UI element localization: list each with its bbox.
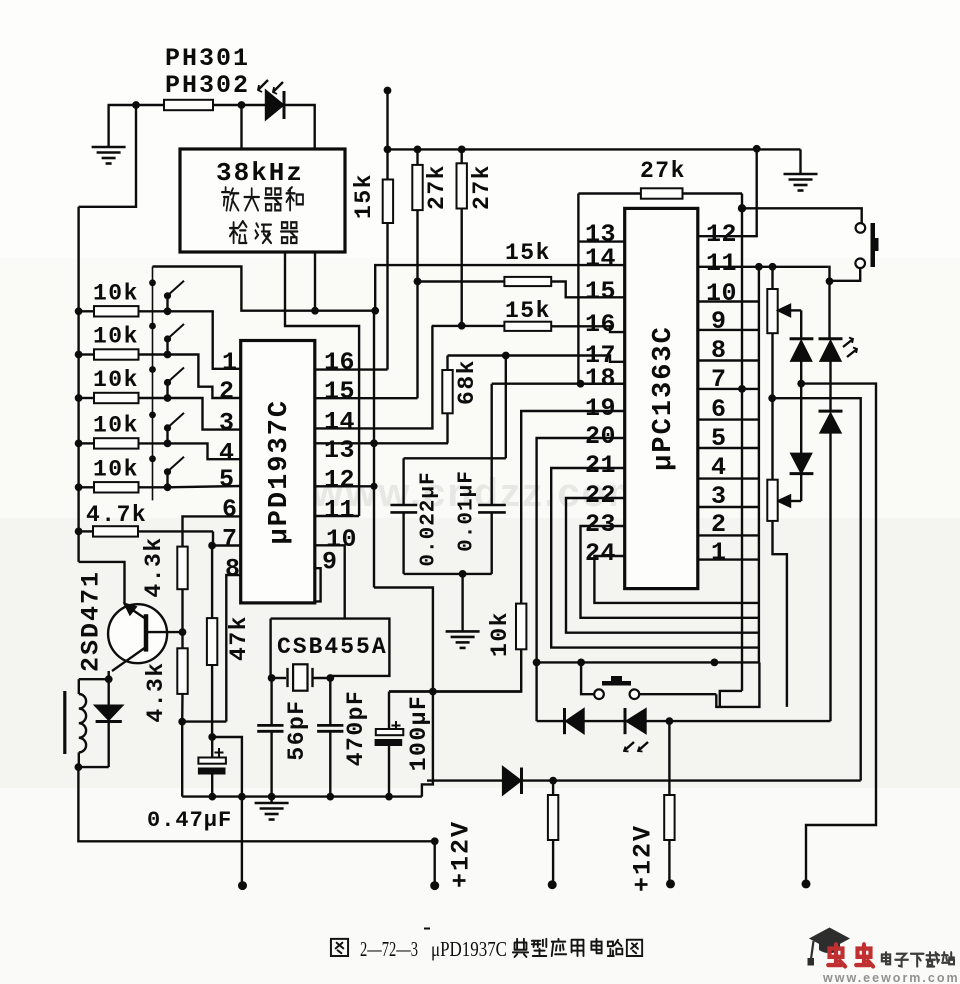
svg-text:2: 2 (219, 377, 235, 406)
wire U2 pin3 stub (698, 506, 759, 508)
wire bottom row (427, 779, 861, 781)
wire to pushbutton SW-P1 (742, 208, 862, 223)
block 38kHz amplifier-detector box (180, 149, 345, 252)
node terminal +12V-3 (666, 879, 675, 888)
wire base node to 47k? (182, 720, 226, 722)
inductor T1 core bar (63, 691, 66, 754)
svg-text:5: 5 (219, 465, 235, 494)
resistor R-LED (668, 721, 670, 795)
resistor 4.7k (79, 530, 93, 532)
wire U2 pin5 stub (698, 447, 759, 449)
wire U1 pin10 drop (315, 545, 345, 618)
node coil bottom junction (75, 763, 83, 771)
wire CSB left top (269, 619, 271, 678)
pushbutton SW-P1 contacts (856, 223, 866, 233)
transistor Q1 collector arrow (125, 604, 136, 614)
pushbutton SW-P1 plunger (871, 223, 876, 267)
wire A2 down to box (240, 105, 242, 149)
wire left rail (77, 207, 79, 562)
svg-text:21: 21 (585, 451, 616, 480)
pushbutton SW-P2 plunger (602, 681, 631, 686)
wire 15k upper to pin15 (418, 280, 505, 282)
wire U2 pin22 wrap (566, 498, 759, 633)
transistor Q1 collector diagonal (125, 605, 147, 620)
node D-A junction (797, 380, 805, 388)
switch S2 arm (166, 342, 168, 355)
svg-text:47k: 47k (226, 615, 252, 661)
node emitter junction (105, 675, 113, 683)
svg-text:470pF: 470pF (343, 690, 369, 767)
svg-text:3: 3 (219, 409, 235, 438)
svg-text:15: 15 (324, 377, 355, 406)
wire 38kHz box output right (285, 252, 359, 516)
resistor 4.3k lower (181, 632, 183, 648)
wire LED string left drop (535, 662, 537, 721)
label hanzi jian-bo-qi (230, 221, 247, 243)
svg-text:100μF: 100μF (406, 695, 432, 772)
svg-text:6: 6 (222, 495, 238, 524)
wire bottom rail CSB (182, 795, 422, 797)
svg-text:18: 18 (585, 364, 616, 393)
wire rail jog up (422, 692, 433, 797)
svg-text:15k: 15k (505, 240, 551, 266)
switch S3 arm (166, 385, 168, 398)
node LED string +12V junction (666, 717, 674, 725)
wire right branch far (801, 384, 876, 884)
node common row junction3 (711, 659, 719, 667)
transistor Q1 emitter diagonal (112, 647, 146, 671)
node rail dot bypass (238, 793, 246, 801)
node common row junction2 (577, 659, 585, 667)
node pin12 junction (370, 483, 377, 490)
diode D-F down-pointing (107, 679, 109, 706)
wire U2 pin1 stub (698, 558, 759, 560)
node gang bus dot row2 (149, 323, 156, 330)
wire pin6 via 4.3k (183, 516, 241, 546)
svg-text:1: 1 (222, 348, 238, 377)
wire center bus to long vertical (374, 588, 433, 692)
resistor 68k (446, 356, 448, 371)
wire U1 pin11 stub (315, 515, 359, 517)
resistor 27k top (578, 192, 641, 194)
svg-text:2—72—3: 2—72—3 (360, 937, 418, 961)
node long-vertical 100u junction (429, 688, 437, 696)
transistor Q1 2SD471 circle (108, 604, 167, 663)
wire switch common top (153, 267, 376, 311)
node gang bus dot row3 (149, 366, 156, 373)
wire 27k to pushbutton node (741, 194, 743, 209)
potentiometer VR2 wiper arrow (779, 496, 791, 507)
wire 27k2 down (461, 209, 463, 326)
potentiometer VR1 wiper arrow (779, 305, 791, 316)
node pin11 bus junction (755, 263, 763, 271)
wire SW-P1 to LED column (830, 268, 861, 281)
node terminal +12V-2 (548, 880, 557, 889)
switch gang bus vertical (152, 267, 154, 501)
svg-text:4.3k: 4.3k (141, 536, 167, 597)
svg-text:0.47μF: 0.47μF (147, 808, 232, 833)
node rail dot 470p (326, 793, 334, 801)
wire G1 stem (107, 105, 109, 148)
wire common row (537, 661, 760, 663)
wire LED1 column upper (828, 281, 830, 338)
node diamond junction (738, 204, 746, 212)
svg-text:10: 10 (706, 279, 737, 308)
svg-text:27k: 27k (469, 164, 495, 210)
wire U1 pin16 to 15k (315, 368, 388, 370)
node button-LED junction (826, 277, 834, 285)
wire D-B to VR2 wiper (800, 474, 802, 501)
wire left bottom rail (78, 767, 434, 841)
svg-text:27k: 27k (424, 164, 450, 210)
wire LED string seg2 (584, 720, 626, 722)
wire 38kHz box output left (314, 252, 316, 311)
wire SW-P2 left lead (581, 662, 594, 694)
svg-text:12: 12 (324, 466, 355, 495)
IC U2 uPC1363C box (625, 208, 698, 588)
resistor 10k row2 (79, 353, 94, 355)
resistor 15k lower (504, 322, 551, 331)
wire 4.3k2 to rail (181, 722, 183, 797)
resistor 10k row3 (79, 397, 94, 399)
wire 100uF top line (389, 690, 521, 692)
wire U1 pin9 stub (315, 568, 321, 601)
resistor 15k upper (504, 277, 551, 286)
svg-text:12: 12 (706, 220, 737, 249)
ground G4 mid (461, 574, 463, 632)
logo chongchong red (828, 944, 845, 966)
resistor 10k row4 (79, 442, 94, 444)
wire U2 pin7 stub (698, 388, 759, 390)
wire coil bottom (78, 752, 80, 767)
logo dianzixiazaizhan (882, 952, 890, 964)
diode D-B down-pointing (792, 454, 811, 473)
wire 15k to pin16 (386, 223, 388, 370)
node common row junction1 (533, 659, 541, 667)
node common-line split junction (371, 307, 379, 315)
svg-text:10k: 10k (487, 611, 513, 657)
wire long vertical bottom jog (720, 691, 742, 707)
ground G3 bottom (270, 797, 272, 803)
wire U2 pin2 stub (698, 534, 759, 536)
svg-text:23: 23 (585, 510, 616, 539)
pushbutton SW-P2 contacts (594, 689, 604, 699)
diode D-E right-pointing (503, 768, 520, 795)
svg-text:10k: 10k (93, 324, 139, 350)
resistor 27k column2 (461, 149, 463, 163)
wire 4.3k to base node (181, 589, 183, 632)
node 47k bottom junction (208, 733, 216, 741)
node left rail junction row2 (75, 351, 83, 359)
wire LED1 to D-C (829, 361, 831, 411)
node junction A1 (132, 101, 140, 109)
resistor 10k pin19 (516, 604, 526, 650)
wire U2 pin21 wrap (551, 468, 759, 648)
node VR junction mid (768, 394, 776, 402)
wire U2 pin10 stub (698, 300, 759, 302)
svg-text:10k: 10k (93, 367, 139, 393)
node rail dot 47k (208, 793, 216, 801)
wire diode to coil node (78, 766, 108, 768)
wire U2 pin11 line (698, 266, 829, 268)
wire cap frame top (404, 457, 506, 459)
wire 68k-top line to pin17 (448, 356, 625, 362)
wire common to uPC1363C pin14 (375, 265, 625, 311)
wire U1 pin12 stub (315, 485, 374, 487)
svg-text:0.01μF: 0.01μF (456, 470, 479, 552)
node terminal bypass (238, 881, 247, 890)
svg-text:56pF: 56pF (284, 699, 310, 760)
wire right pin bus (758, 267, 760, 663)
wire A1 down to rail (79, 105, 136, 207)
resistor R-PH (series) (164, 100, 213, 110)
wire 27k1 down (416, 210, 418, 398)
wire LED string seg1 (537, 720, 565, 722)
node pin13 junction (370, 439, 378, 447)
svg-text:38kHz: 38kHz (216, 158, 304, 188)
node 27k2 to 15k-lower junction (458, 322, 466, 330)
capacitor C6 0.47uF electrolytic (198, 758, 226, 764)
node terminal +12V-1 (430, 881, 439, 890)
svg-text:27k: 27k (640, 158, 686, 184)
wire U1 pin15 to 27k1 (315, 397, 418, 399)
svg-text:4.7k: 4.7k (86, 502, 147, 528)
wire U2 pin9 stub (698, 329, 759, 331)
node bottom row junction (549, 777, 557, 785)
svg-text:10k: 10k (93, 456, 139, 482)
svg-text:PH302: PH302 (165, 71, 250, 100)
wire U2 pin8 stub (698, 359, 759, 361)
resistor 4.3k upper (177, 547, 187, 590)
svg-text:www.eeworm.com: www.eeworm.com (822, 971, 960, 984)
svg-text:0.022μF: 0.022μF (418, 471, 441, 566)
svg-text:CSB455A: CSB455A (277, 634, 388, 660)
wire LED string seg3 (646, 720, 831, 722)
capacitor C3 56pF (270, 678, 272, 725)
LED LED1 emission arrows (843, 339, 853, 347)
inductor T1 coil (79, 694, 86, 752)
wire U2 pin24 wrap (594, 556, 759, 603)
svg-text:4.3k: 4.3k (143, 661, 169, 722)
node pin11 pot junction (769, 263, 777, 271)
svg-text:μPD1937C: μPD1937C (265, 399, 295, 545)
potentiometer VR1 (771, 267, 773, 289)
potentiometer VR2 (767, 480, 777, 521)
wire 0.47 bypass (212, 737, 242, 886)
capacitor C1 0.022uF (402, 458, 404, 505)
wire U2 pin12 riser (698, 149, 757, 236)
svg-text:15: 15 (585, 277, 616, 306)
wire row2 to pin2 (168, 355, 241, 399)
wire row5 to pin5 (168, 486, 241, 487)
switch S5 arm (166, 474, 168, 487)
wire Q1 base lead (146, 631, 183, 633)
svg-text:24: 24 (585, 539, 616, 568)
svg-text:+12V: +12V (447, 820, 476, 888)
wire U2 pin23 wrap (581, 526, 759, 618)
label hanzi fang-da-qi-he (222, 187, 239, 210)
wire U2 pin19 via 10k (521, 411, 625, 604)
wire U2 pin13 stub (578, 240, 624, 242)
wire long vertical right of U2 (741, 208, 743, 691)
svg-text:10k: 10k (93, 280, 139, 306)
wire row1 to pin1 (168, 311, 241, 369)
svg-text:16: 16 (324, 348, 355, 377)
node rail junction 27k-1 (414, 146, 422, 154)
node gang bus dot row1 (149, 279, 156, 286)
wire U2 pin18 stub (581, 383, 625, 385)
node left rail junction row3 (75, 394, 83, 402)
wire U2 pin4 stub (698, 477, 759, 479)
transistor Q1 base bar (144, 614, 149, 651)
wire VR2 bottom jog (773, 521, 787, 707)
node 4.3k2 bottom junction (178, 718, 186, 726)
node switch S5 pole (164, 483, 172, 491)
svg-text:16: 16 (585, 310, 616, 339)
node gang bus dot row4 (149, 412, 156, 419)
node terminal supply dot (384, 87, 392, 95)
svg-text:22: 22 (585, 481, 616, 510)
svg-text:68k: 68k (454, 359, 480, 405)
wire riser to cap frame (505, 356, 507, 459)
svg-text:2SD471: 2SD471 (77, 570, 106, 672)
node 68k line junction (502, 352, 510, 360)
node rail junction 27k-2 (458, 146, 466, 154)
wire U1 pin8 drop (226, 575, 240, 722)
svg-text:9: 9 (322, 548, 338, 577)
wire terminal stub (434, 841, 436, 885)
node 47k top junction (208, 542, 216, 550)
switch S4 arm (166, 430, 168, 443)
wire 15k column upper (386, 91, 388, 180)
node resonator right (326, 674, 334, 682)
node switch S4 pole (164, 440, 172, 448)
wire pot column mid (771, 333, 773, 480)
capacitor C4 470pF (329, 678, 331, 725)
svg-text:4: 4 (219, 439, 235, 468)
svg-text:7: 7 (222, 525, 238, 554)
node gang bus dot row5 (149, 455, 156, 462)
node terminal far right (802, 879, 811, 888)
svg-text:11: 11 (706, 249, 737, 278)
wire U1 pin14 riser (315, 326, 433, 429)
photodiode D-PH (266, 91, 283, 119)
svg-text:μPD1937C: μPD1937C (431, 937, 507, 961)
wire top rail (388, 148, 801, 150)
svg-text:9: 9 (711, 307, 727, 336)
wire D-C down long (829, 432, 831, 721)
wire U2 pin6 stub (698, 418, 759, 420)
node 38kHz-out junction (311, 307, 319, 315)
wire CSB frame (271, 619, 390, 678)
svg-text:15k: 15k (351, 173, 377, 219)
diode D-D left-pointing (563, 708, 566, 734)
LED LED1 up-pointing (819, 337, 843, 340)
node pin7R junction (738, 385, 746, 393)
node resonator left (268, 674, 276, 682)
diode D-C up-pointing (819, 410, 843, 413)
wire row4 to pin4 (168, 443, 241, 459)
wire AGC bus vertical (577, 194, 579, 384)
caption hanzi tu (331, 939, 348, 956)
resistor R-12V2 (552, 781, 554, 795)
wire common row end drop (716, 662, 759, 707)
wire R-PH to photodiode (213, 104, 267, 106)
resistor 27k column1 (416, 149, 418, 165)
switch S1 arm (166, 298, 168, 311)
node switch S2 pole (164, 351, 172, 359)
wire SW-P2 right lead (639, 693, 716, 695)
svg-text:11: 11 (324, 495, 355, 524)
wire center vertical bus (373, 311, 375, 588)
IC U1 uPD1937C box (241, 341, 315, 603)
node rail dot 56p (268, 793, 276, 801)
node pin18 junction (577, 380, 585, 388)
wire top-left horizontal (108, 104, 165, 106)
resistor 15k vertical (383, 180, 393, 224)
wire rail jog to collector (79, 562, 125, 605)
svg-text:14: 14 (324, 408, 355, 437)
wire D-A down (800, 361, 802, 384)
svg-text:10k: 10k (93, 412, 139, 438)
resistor 10k row5 (79, 486, 94, 488)
wire pin11 corner down (828, 267, 829, 282)
resistor 10k row1 (79, 310, 94, 312)
node switch S3 pole (164, 394, 172, 402)
node 27k1 to 15k-upper junction (414, 278, 422, 286)
photodiode PH receive arrows (258, 80, 268, 90)
wire U2 pin20 wrap (537, 438, 625, 662)
svg-text:μPC1363C: μPC1363C (649, 325, 679, 471)
svg-text:20: 20 (585, 422, 616, 451)
wire D-B column (800, 384, 802, 454)
svg-text:19: 19 (585, 394, 616, 423)
node left rail junction row1 (75, 307, 83, 315)
wire 4.7k to pin7 (213, 531, 241, 545)
node rail junction pin12 riser (753, 145, 761, 153)
node left rail junction row4 (75, 440, 83, 448)
wire U1 pin13 to 68k (315, 442, 448, 444)
resistor 47k (211, 546, 213, 619)
wire mid row right (772, 398, 861, 780)
LED LED2 left-pointing (624, 708, 627, 734)
capacitor C2 0.01uF (491, 384, 493, 505)
node left rail junction row5 (75, 483, 83, 491)
node rail junction 15k (384, 146, 392, 154)
LED LED2 emission arrows (624, 742, 634, 751)
caption dash (424, 928, 430, 930)
wire 10k bottom (389, 649, 521, 691)
node Q1 base junction (179, 628, 187, 636)
caption hanzi dian-xing-ying-yong-dian-lu-tu (513, 939, 528, 957)
node frame ground junction (459, 570, 467, 578)
logo graduation cap (809, 928, 850, 950)
node bottom rail end (431, 837, 439, 845)
node left rail 4.7k junction (75, 528, 83, 536)
wire row3 to pin3 (168, 398, 241, 430)
svg-text:13: 13 (324, 436, 355, 465)
svg-text:+12V: +12V (629, 824, 658, 892)
diode D-A up-pointing (790, 337, 814, 340)
svg-text:1: 1 (711, 538, 727, 567)
svg-text:14: 14 (585, 244, 616, 273)
ground G1 top-left (92, 147, 126, 164)
wire photodiode to box (285, 105, 315, 149)
capacitor C5 100uF electrolytic (388, 692, 390, 730)
wire 0.01 line to pin18 (492, 383, 625, 385)
svg-text:PH301: PH301 (165, 44, 250, 73)
ground G2 top-right (799, 149, 801, 174)
